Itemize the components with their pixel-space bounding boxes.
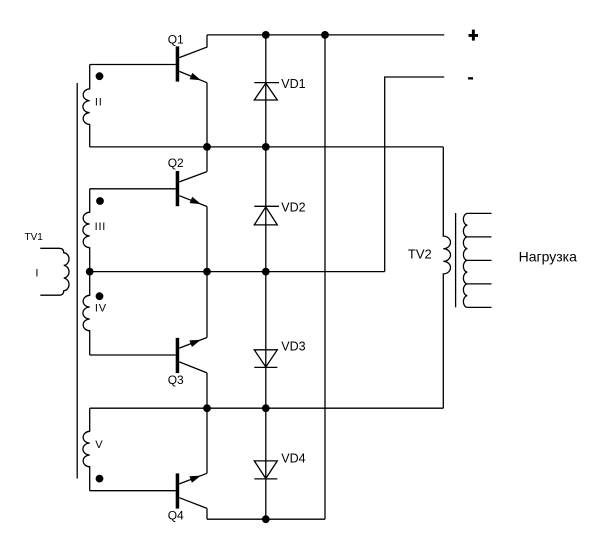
transistor Q1 base wire <box>90 64 176 66</box>
winding V polarity dot <box>96 475 104 483</box>
wire node 1 horizontal (Q1 emitter / Q2 collector / VD1-VD2 / TV2 primary top) <box>90 146 444 148</box>
svg-text:Q2: Q2 <box>168 156 184 170</box>
junction node dot top rail at diode column <box>262 31 270 39</box>
wire main chain column x=207 segment Q2 emitter to Q3 emitter <box>206 207 208 338</box>
diode VD2 cathode bar <box>254 205 279 207</box>
transistor Q1 emitter wire <box>179 71 207 82</box>
svg-text:VD2: VD2 <box>281 201 305 215</box>
diode VD4 cathode bar <box>254 478 277 480</box>
junction node dot node1 at x=207 <box>203 143 211 151</box>
minus terminal symbol <box>468 77 473 79</box>
svg-text:IV: IV <box>95 303 107 315</box>
transistor Q3 collector wire <box>179 362 207 373</box>
svg-text:Q4: Q4 <box>168 509 184 523</box>
junction node dot node2 at winding column <box>86 268 94 276</box>
transistor Q2 emitter wire <box>179 196 207 207</box>
transistor Q3 emitter wire <box>179 338 207 349</box>
junction node dot bottom rail at diode column <box>262 515 270 523</box>
diode VD1 triangle <box>254 83 277 100</box>
diode VD2 triangle <box>254 207 277 225</box>
svg-text:VD1: VD1 <box>281 77 305 91</box>
wire node 2 horizontal (center tap line) <box>90 271 385 273</box>
transformer TV1 winding III <box>83 189 90 272</box>
transistor Q4 base bar <box>176 473 180 508</box>
transistor Q3 base wire <box>90 354 176 356</box>
junction node dot top rail at right column <box>321 31 329 39</box>
TV2 secondary tap 2 <box>467 236 491 238</box>
diode VD3 cathode bar <box>254 366 277 368</box>
transistor Q1 base bar <box>176 46 180 81</box>
transistor Q2 base bar <box>176 171 180 206</box>
wire main chain column x=207 segment Q4 collector to bottom rail <box>206 508 208 519</box>
svg-text:II: II <box>95 96 103 108</box>
transistor Q4 emitter wire <box>179 473 207 484</box>
winding IV polarity dot <box>96 292 104 300</box>
wire bottom rail <box>207 518 325 520</box>
junction node dot node2 at diode column <box>262 268 270 276</box>
wire minus rail and vertical drop to node 2 <box>385 77 445 272</box>
transistor Q4 base wire <box>90 490 176 492</box>
transformer TV1 winding V <box>83 408 90 491</box>
svg-text:VD3: VD3 <box>281 340 305 354</box>
transistor Q1 emitter arrow <box>190 73 201 80</box>
transformer TV2 core <box>455 213 457 307</box>
transformer TV1 core <box>76 83 78 479</box>
svg-text:V: V <box>95 439 103 451</box>
diode VD4 triangle <box>254 461 277 479</box>
wire main chain column x=207 segment Q1 emitter to Q2 collector <box>206 83 208 172</box>
svg-text:Q1: Q1 <box>168 33 184 47</box>
wire top positive rail <box>207 34 444 36</box>
wire main chain column x=207 segment Q3 collector to Q4 emitter <box>206 373 208 473</box>
transistor Q1 collector wire <box>179 35 207 58</box>
svg-text:Нагрузка: Нагрузка <box>519 248 577 264</box>
svg-text:III: III <box>95 221 107 233</box>
transistor Q4 collector wire <box>179 498 207 509</box>
transistor Q2 base wire <box>90 188 176 190</box>
TV2 secondary tap 4 <box>467 283 491 285</box>
transformer TV1 winding II <box>83 65 90 147</box>
diode VD3 triangle <box>254 350 277 367</box>
wire node 3 horizontal (Q3/Q4 node to TV2 primary bottom) <box>90 407 444 409</box>
junction node dot node2 at x=207 <box>203 268 211 276</box>
svg-text:VD4: VD4 <box>281 451 305 465</box>
svg-text:Q3: Q3 <box>168 373 184 387</box>
junction node dot node3 at x=207 <box>203 404 211 412</box>
transformer TV2 secondary winding <box>463 213 467 307</box>
winding II polarity dot <box>96 72 104 80</box>
transistor Q3 base bar <box>176 338 180 373</box>
svg-text:TV1: TV1 <box>25 232 44 243</box>
transistor Q4 emitter arrow <box>189 476 201 483</box>
junction node dot node3 at diode column <box>262 404 270 412</box>
transistor Q2 collector wire <box>179 172 207 182</box>
TV2 secondary tap 1 <box>467 212 491 214</box>
transistor Q2 emitter arrow <box>190 197 201 204</box>
transformer TV2 primary winding <box>443 147 450 408</box>
wire right column x=325 <box>324 35 326 519</box>
TV2 secondary tap 5 <box>467 306 491 308</box>
transformer TV1 winding I <box>40 248 69 295</box>
TV2 secondary tap 3 <box>467 259 491 261</box>
winding III polarity dot <box>96 197 104 205</box>
plus terminal symbol <box>469 30 479 41</box>
svg-text:TV2: TV2 <box>408 247 432 262</box>
wire diode column x=266 <box>265 35 267 519</box>
transformer TV1 winding IV <box>83 272 90 355</box>
svg-text:I: I <box>35 267 38 279</box>
junction node dot node1 at diode column <box>262 143 270 151</box>
transistor Q3 emitter arrow <box>189 340 201 347</box>
diode VD1 cathode bar <box>254 82 279 84</box>
